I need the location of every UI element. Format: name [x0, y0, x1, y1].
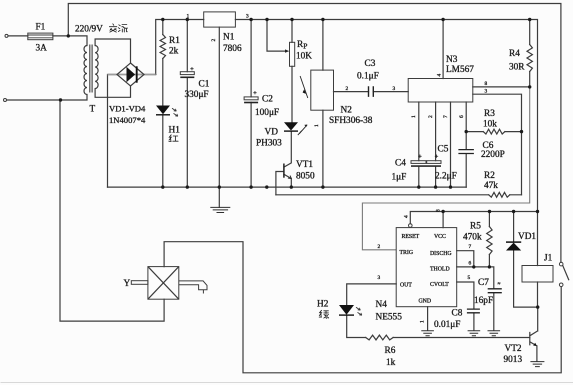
svg-text:1: 1 [187, 14, 190, 20]
svg-text:C2: C2 [262, 95, 273, 105]
svg-text:2: 2 [428, 115, 434, 118]
svg-text:C5: C5 [438, 145, 449, 155]
svg-text:H2: H2 [317, 300, 329, 310]
svg-text:≈: ≈ [498, 282, 501, 287]
svg-text:N1: N1 [223, 33, 235, 43]
svg-text:H1: H1 [169, 126, 181, 136]
svg-text:1N4007*4: 1N4007*4 [109, 115, 146, 125]
svg-text:1: 1 [411, 115, 417, 118]
svg-text:DISCHG: DISCHG [430, 251, 452, 257]
svg-text:6: 6 [459, 115, 465, 118]
svg-text:1: 1 [314, 124, 320, 127]
svg-text:3: 3 [485, 89, 488, 95]
svg-text:8: 8 [485, 81, 488, 87]
svg-text:100μF: 100μF [255, 108, 279, 118]
svg-text:SFH306-38: SFH306-38 [329, 116, 373, 126]
svg-text:R1: R1 [169, 36, 180, 46]
svg-text:VD1-VD4: VD1-VD4 [109, 104, 146, 114]
svg-text:LM567: LM567 [446, 65, 474, 75]
svg-text:3: 3 [246, 14, 249, 20]
svg-text:CVOLT: CVOLT [430, 282, 449, 288]
svg-text:6: 6 [469, 260, 472, 266]
svg-text:TRIG: TRIG [400, 250, 414, 256]
svg-text:RP: RP [297, 40, 307, 51]
svg-text:R3: R3 [484, 109, 495, 119]
svg-text:7: 7 [469, 244, 472, 250]
svg-text:30R: 30R [509, 63, 525, 73]
svg-text:VCC: VCC [434, 234, 446, 240]
svg-text:C4: C4 [395, 159, 406, 169]
svg-text:F1: F1 [36, 23, 46, 33]
svg-text:VD1: VD1 [518, 232, 536, 242]
svg-text:VT2: VT2 [505, 344, 522, 354]
svg-text:R6: R6 [385, 346, 396, 356]
svg-text:3A: 3A [36, 44, 48, 54]
svg-text:R5: R5 [470, 222, 481, 232]
svg-text:9013: 9013 [504, 355, 523, 365]
svg-text:2200P: 2200P [481, 150, 505, 160]
svg-text:16pF: 16pF [474, 296, 493, 306]
svg-text:7806: 7806 [223, 44, 242, 54]
svg-text:4: 4 [404, 215, 410, 218]
svg-text:2k: 2k [169, 47, 179, 57]
svg-text:R4: R4 [509, 49, 520, 59]
svg-text:VD: VD [265, 128, 279, 138]
svg-text:7: 7 [443, 115, 449, 118]
svg-text:1: 1 [420, 320, 426, 323]
svg-text:NE555: NE555 [376, 313, 403, 323]
svg-text:2: 2 [378, 244, 381, 250]
svg-text:47k: 47k [484, 181, 498, 191]
svg-text:+: + [253, 90, 257, 97]
svg-text:3: 3 [378, 275, 381, 281]
svg-text:T: T [90, 105, 96, 115]
svg-text:VT1: VT1 [296, 160, 313, 170]
svg-text:Y: Y [124, 279, 131, 289]
svg-text:N2: N2 [341, 106, 353, 116]
svg-text:4: 4 [437, 74, 443, 77]
svg-text:GND: GND [419, 298, 432, 304]
svg-text:1μF: 1μF [392, 173, 407, 183]
svg-text:470k: 470k [463, 233, 482, 243]
svg-text:+: + [435, 153, 439, 160]
svg-text:8050: 8050 [296, 172, 315, 182]
svg-text:C3: C3 [365, 59, 376, 69]
svg-text:330μF: 330μF [185, 90, 209, 100]
svg-text:2: 2 [211, 39, 217, 42]
svg-text:C1: C1 [199, 80, 210, 90]
svg-text:220/9V: 220/9V [75, 25, 103, 35]
svg-text:N4: N4 [376, 300, 388, 310]
svg-text:2: 2 [346, 86, 349, 92]
svg-text:0.1μF: 0.1μF [357, 72, 379, 82]
svg-text:N3: N3 [446, 55, 458, 65]
svg-text:PH303: PH303 [256, 139, 282, 149]
svg-text:10K: 10K [296, 52, 312, 62]
svg-text:10k: 10k [483, 120, 497, 130]
svg-text:5: 5 [468, 275, 471, 281]
svg-text:8: 8 [436, 209, 442, 212]
svg-text:J1: J1 [544, 254, 553, 264]
svg-text:0.01μF: 0.01μF [434, 320, 460, 330]
svg-text:RESET: RESET [402, 234, 420, 240]
svg-text:C7: C7 [478, 278, 489, 288]
svg-text:1k: 1k [386, 358, 396, 368]
svg-text:+: + [190, 66, 194, 73]
svg-text:R2: R2 [484, 171, 495, 181]
svg-text:3: 3 [393, 86, 396, 92]
svg-text:2.2μF: 2.2μF [435, 172, 457, 182]
svg-text:C8: C8 [452, 309, 463, 319]
svg-text:OUT: OUT [400, 283, 412, 289]
svg-text:THOLD: THOLD [430, 267, 450, 273]
svg-text:+: + [418, 153, 422, 160]
